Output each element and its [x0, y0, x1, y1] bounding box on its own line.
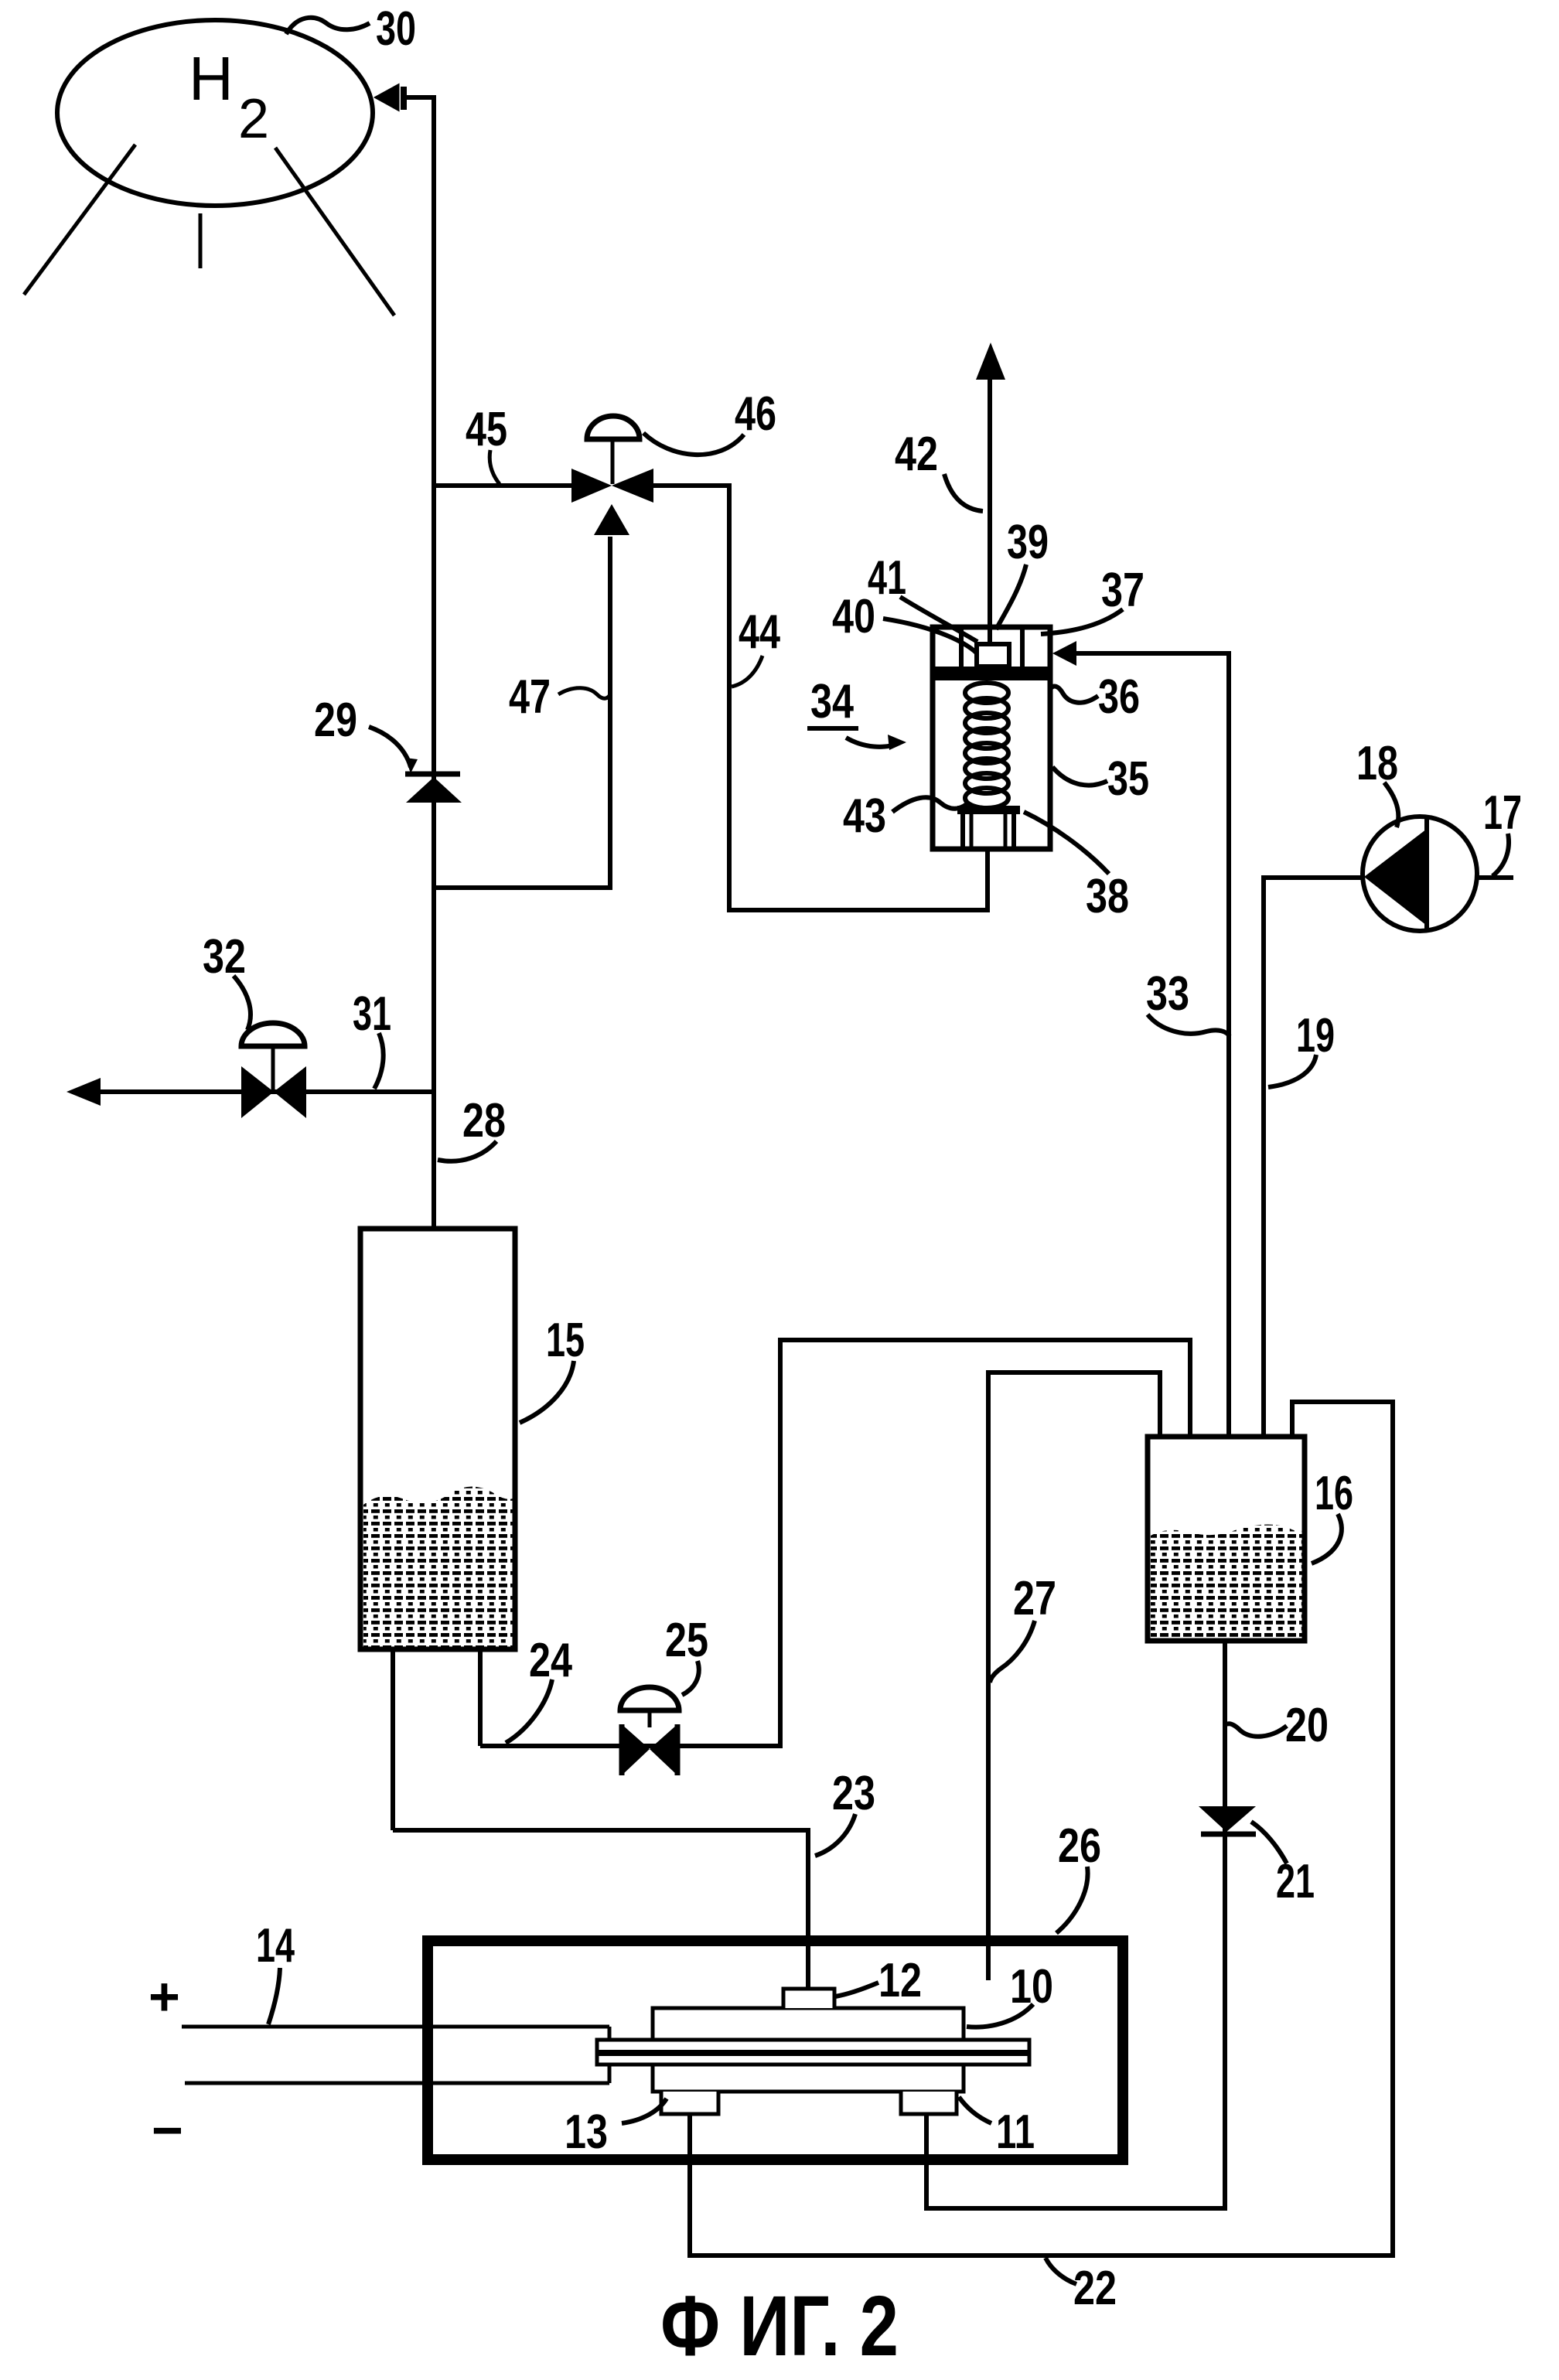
- wire - electrode: [185, 2082, 609, 2085]
- label 16: [1312, 1467, 1353, 1563]
- svg-text:36: 36: [1098, 670, 1140, 724]
- actuator dome 32: [241, 1023, 305, 1090]
- label 27: [990, 1572, 1056, 1683]
- svg-text:30: 30: [376, 2, 416, 56]
- tank 15: [360, 1229, 515, 1649]
- label 40: [832, 590, 996, 661]
- svg-text:33: 33: [1146, 967, 1189, 1021]
- wire 24: [480, 1340, 1190, 1746]
- tab 12: [783, 1989, 834, 2008]
- label 45: [466, 403, 507, 484]
- tank 16: [1148, 1437, 1305, 1641]
- label 29: [314, 694, 418, 773]
- svg-text:24: 24: [529, 1634, 572, 1687]
- relief valve internal dividers: [959, 627, 964, 670]
- foot 11: [901, 2092, 957, 2114]
- svg-text:11: 11: [996, 2106, 1035, 2159]
- svg-text:46: 46: [735, 387, 776, 441]
- svg-text:31: 31: [353, 987, 391, 1041]
- spring 43: [965, 683, 1008, 808]
- svg-text:22: 22: [1073, 2262, 1117, 2315]
- label 15: [520, 1314, 585, 1423]
- label 24: [506, 1634, 572, 1743]
- label 18: [1356, 737, 1398, 827]
- pump outlet pipe 17: [1477, 875, 1513, 880]
- relief valve assembly 34 : top pipe: [988, 379, 992, 644]
- label 22: [1046, 2258, 1117, 2315]
- wire main vertical line: [432, 95, 436, 1226]
- svg-text:37: 37: [1101, 564, 1145, 617]
- label 20: [1226, 1699, 1329, 1752]
- tank 16 liquid fill: [1151, 1524, 1302, 1638]
- wire 47 bypass: [434, 537, 610, 888]
- label 28: [438, 1094, 506, 1161]
- foot 13: [661, 2092, 718, 2114]
- label 44: [732, 605, 780, 687]
- label 30: [286, 2, 416, 56]
- label 25: [665, 1614, 708, 1695]
- tank 15 liquid fill: [363, 1486, 513, 1647]
- label 36: [1051, 670, 1140, 724]
- svg-text:43: 43: [843, 789, 886, 843]
- ray right of source: [275, 148, 394, 315]
- svg-text:Ф ИГ. 2: Ф ИГ. 2: [660, 2279, 899, 2374]
- svg-text:19: 19: [1296, 1009, 1335, 1062]
- svg-text:45: 45: [466, 403, 507, 456]
- wire inlet horizontal: [404, 95, 436, 100]
- svg-text:28: 28: [462, 1094, 506, 1147]
- wire valve46 to line 44: [653, 486, 988, 910]
- svg-text:14: 14: [256, 1919, 295, 1973]
- svg-text:15: 15: [546, 1314, 585, 1367]
- svg-text:27: 27: [1013, 1572, 1056, 1625]
- label 33: [1146, 967, 1230, 1036]
- cell box 26: [428, 1941, 1123, 2160]
- label 41: [868, 551, 977, 642]
- pump 18: [1363, 817, 1477, 931]
- svg-text:+: +: [148, 1966, 180, 2027]
- svg-text:21: 21: [1276, 1855, 1315, 1908]
- wire 20 from tank16 bottom: [926, 1641, 1225, 2208]
- actuator dome of valve 46: [587, 416, 640, 484]
- actuator dome of valve 25: [620, 1687, 679, 1727]
- label 37: [1041, 564, 1145, 634]
- label 14: [256, 1919, 295, 2024]
- inlet tick bar: [401, 87, 407, 110]
- svg-text:23: 23: [832, 1767, 875, 1820]
- svg-text:42: 42: [895, 428, 938, 481]
- label 32: [203, 930, 251, 1030]
- wire 33: [1075, 653, 1229, 1435]
- svg-text:H: H: [189, 44, 234, 113]
- bottom block 38: [957, 806, 1020, 847]
- svg-text:35: 35: [1107, 752, 1149, 806]
- outlet arrowhead 42 up: [976, 343, 1005, 380]
- label 10: [967, 1960, 1053, 2027]
- membrane: [597, 2040, 1029, 2065]
- label 17: [1483, 786, 1522, 876]
- wire 19: [1264, 878, 1363, 1435]
- svg-text:17: 17: [1483, 786, 1522, 840]
- svg-text:2: 2: [238, 88, 269, 150]
- inlet arrowhead into source: [376, 85, 398, 110]
- seat band 36: [933, 667, 1050, 680]
- svg-text:12: 12: [878, 1954, 922, 2007]
- svg-text:13: 13: [565, 2106, 608, 2159]
- wire 22 top from tank16: [690, 1402, 1393, 2256]
- svg-text:25: 25: [665, 1614, 708, 1667]
- svg-text:18: 18: [1356, 737, 1398, 790]
- svg-text:34: 34: [810, 675, 854, 728]
- inlet arrowhead into relief valve: [1052, 641, 1076, 666]
- svg-text:20: 20: [1285, 1699, 1329, 1752]
- label 46: [643, 387, 776, 455]
- label 35: [1052, 752, 1149, 806]
- label 26: [1056, 1819, 1101, 1933]
- wire 23: [393, 1830, 808, 1989]
- svg-text:38: 38: [1086, 870, 1129, 923]
- svg-text:32: 32: [203, 930, 246, 984]
- lower electrode plate: [653, 2065, 964, 2092]
- wire 45 horizontal: [434, 483, 573, 488]
- terminal block right edge: [608, 2027, 612, 2083]
- label 12: [835, 1954, 922, 2007]
- check valve 21: [1199, 1806, 1256, 1834]
- svg-text:26: 26: [1058, 1819, 1101, 1873]
- vent arrowhead left: [67, 1078, 101, 1106]
- label 31: [353, 987, 391, 1089]
- check valve 29: [405, 774, 462, 803]
- label 21: [1251, 1822, 1315, 1908]
- svg-text:40: 40: [832, 590, 875, 643]
- svg-text:−: −: [152, 2100, 183, 2160]
- label 13: [565, 2099, 667, 2159]
- svg-text:10: 10: [1010, 1960, 1053, 2013]
- tank15 right outlet pipe: [478, 1652, 483, 1746]
- poppet 41 small box: [977, 644, 1009, 667]
- label 23: [815, 1767, 875, 1856]
- valve 46 three-way: [571, 469, 653, 535]
- upper electrode plate 10: [653, 2008, 964, 2040]
- label 43: [843, 789, 967, 843]
- wire 27: [988, 1372, 1160, 1980]
- svg-text:44: 44: [739, 605, 780, 659]
- valve 31: [241, 1066, 306, 1118]
- valve 25: [622, 1724, 677, 1775]
- label 11: [959, 2097, 1035, 2159]
- svg-text:47: 47: [509, 670, 551, 724]
- wire + electrode 14: [182, 2025, 609, 2029]
- label 47: [509, 670, 610, 724]
- label 42: [895, 428, 983, 511]
- ray left of source: [24, 145, 135, 295]
- relief valve 34 body: [933, 627, 1050, 849]
- tank15 left outlet pipe: [391, 1652, 395, 1830]
- label 19: [1268, 1009, 1335, 1087]
- svg-text:39: 39: [1007, 516, 1049, 569]
- label 34 underlined: [807, 675, 906, 750]
- H2 source ellipse 30: [57, 20, 373, 206]
- svg-text:29: 29: [314, 694, 357, 747]
- label 38: [1024, 812, 1129, 923]
- svg-text:16: 16: [1315, 1467, 1353, 1520]
- label 39: [996, 516, 1049, 629]
- wire vent line 31: [97, 1089, 434, 1094]
- ray bottom of source: [199, 213, 203, 268]
